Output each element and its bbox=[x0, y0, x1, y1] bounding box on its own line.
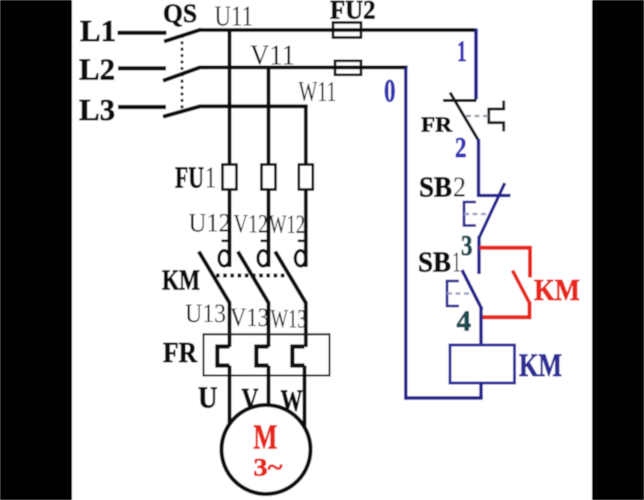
button SB1 actuator dashed rod bbox=[447, 292, 470, 294]
svg-text:W11: W11 bbox=[299, 76, 337, 108]
wire SB1 to coil vertical bbox=[479, 308, 482, 346]
svg-text:3~: 3~ bbox=[253, 455, 282, 482]
svg-text:1: 1 bbox=[457, 35, 467, 68]
svg-text:0: 0 bbox=[384, 74, 396, 110]
fuse FU1a body bbox=[223, 165, 237, 190]
relay FR box bbox=[204, 334, 330, 375]
wire U13 vertical bbox=[228, 303, 232, 348]
svg-text:FU2: FU2 bbox=[330, 0, 376, 24]
svg-text:FU: FU bbox=[175, 160, 204, 195]
contactor KM main contact 3 blade bbox=[275, 252, 306, 304]
contactor KM main contact 1 blade bbox=[199, 252, 230, 304]
switch QS blade pole 1 bbox=[164, 30, 201, 42]
switch QS blade pole 3 bbox=[163, 106, 200, 116]
fuse FU1c body bbox=[299, 165, 313, 190]
motor M circle bbox=[222, 405, 311, 494]
svg-text:4: 4 bbox=[457, 307, 472, 338]
svg-text:W13: W13 bbox=[271, 305, 307, 334]
contactor KM aux contact bottom wire red bbox=[480, 302, 530, 318]
svg-text:1: 1 bbox=[452, 248, 461, 279]
coil KM box bbox=[450, 345, 515, 383]
contactor KM main contact 2 arc bbox=[258, 250, 269, 266]
fuse FU2a body bbox=[333, 23, 361, 38]
svg-text:U12: U12 bbox=[189, 209, 232, 238]
wire W11 horizontal bbox=[199, 104, 308, 108]
wire U motor lead bbox=[228, 366, 232, 427]
button SB2 actuator bbox=[464, 202, 476, 226]
switch QS blade pole 2 bbox=[163, 67, 200, 80]
button SB1 blade bbox=[462, 270, 482, 310]
right black letterbox bar bbox=[592, 0, 644, 500]
svg-text:2: 2 bbox=[455, 133, 467, 164]
wire L3 stub bbox=[118, 105, 166, 109]
svg-text:V12: V12 bbox=[234, 210, 269, 239]
contactor KM aux contact blade red bbox=[513, 271, 530, 304]
relay FR NC contact terminal bar bbox=[443, 99, 477, 102]
svg-text:V13: V13 bbox=[230, 303, 269, 332]
svg-text:M: M bbox=[253, 418, 277, 457]
wire U12 vertical bbox=[228, 190, 232, 268]
svg-text:3: 3 bbox=[461, 231, 473, 262]
wire W phase vertical upper bbox=[304, 106, 308, 164]
contactor KM main contact 1 arc bbox=[219, 250, 230, 266]
svg-text:1: 1 bbox=[205, 160, 216, 195]
svg-text:FR: FR bbox=[421, 113, 453, 137]
relay FR heater element 2 bbox=[256, 347, 268, 366]
contactor KM aux contact top wire red bbox=[480, 248, 530, 278]
wire L1 stub bbox=[118, 31, 167, 35]
svg-text:SB: SB bbox=[418, 248, 451, 279]
relay FR NC contact blade bbox=[450, 93, 479, 141]
fuse FU1b body bbox=[262, 165, 276, 190]
wire W motor lead bbox=[303, 366, 307, 432]
button SB2 blade bbox=[479, 183, 505, 238]
svg-text:FR: FR bbox=[163, 338, 198, 369]
svg-text:KM: KM bbox=[534, 272, 580, 307]
svg-text:V11: V11 bbox=[250, 40, 295, 72]
svg-text:U11: U11 bbox=[215, 2, 254, 33]
relay FR heater element 3 bbox=[292, 347, 304, 366]
wire bottom horizontal bbox=[406, 396, 483, 399]
svg-text:KM: KM bbox=[162, 266, 200, 297]
wire W13 vertical bbox=[304, 303, 308, 348]
switch QS linkage dotted line bbox=[181, 35, 184, 111]
relay FR trip actuator bbox=[489, 101, 504, 132]
wire node 0 vertical bbox=[404, 67, 407, 399]
svg-text:L3: L3 bbox=[79, 92, 115, 127]
relay FR heater element 1 bbox=[217, 347, 229, 366]
svg-text:W12: W12 bbox=[269, 210, 305, 239]
svg-text:QS: QS bbox=[163, 0, 197, 28]
svg-text:U13: U13 bbox=[185, 299, 226, 328]
button SB2 actuator dashed rod bbox=[464, 213, 488, 215]
wire V motor lead bbox=[267, 366, 271, 409]
svg-text:KM: KM bbox=[519, 348, 562, 384]
relay FR actuator dashed link bbox=[466, 115, 489, 117]
svg-text:SB: SB bbox=[419, 173, 452, 204]
wire V phase vertical upper bbox=[267, 67, 271, 164]
wire coil to bottom vertical bbox=[479, 383, 482, 398]
contactor KM main contact 2 blade bbox=[238, 252, 269, 304]
svg-text:2: 2 bbox=[453, 173, 466, 204]
wire W12 vertical bbox=[304, 190, 308, 268]
svg-text:L1: L1 bbox=[80, 13, 116, 48]
contactor KM main contact 3 arc bbox=[295, 250, 306, 266]
wire V12 vertical bbox=[267, 190, 271, 268]
button SB1 actuator bbox=[447, 281, 459, 306]
svg-text:L2: L2 bbox=[79, 52, 115, 87]
fuse FU2b body bbox=[335, 61, 361, 75]
wire node3 vertical bbox=[477, 236, 480, 274]
wire U phase vertical upper bbox=[228, 30, 232, 165]
contactor KM linkage dotted line bbox=[216, 274, 290, 278]
button SB2 terminal bar bbox=[479, 194, 511, 197]
svg-text:U: U bbox=[198, 380, 218, 415]
left black letterbox bar bbox=[0, 0, 72, 500]
wire V11 horizontal bbox=[199, 66, 408, 70]
wire V13 vertical bbox=[267, 303, 271, 348]
wire U11 horizontal bbox=[199, 28, 476, 32]
wire node2 vertical bbox=[477, 139, 480, 197]
node 1 vertical wire bbox=[474, 29, 478, 100]
wire L2 stub bbox=[118, 66, 166, 70]
